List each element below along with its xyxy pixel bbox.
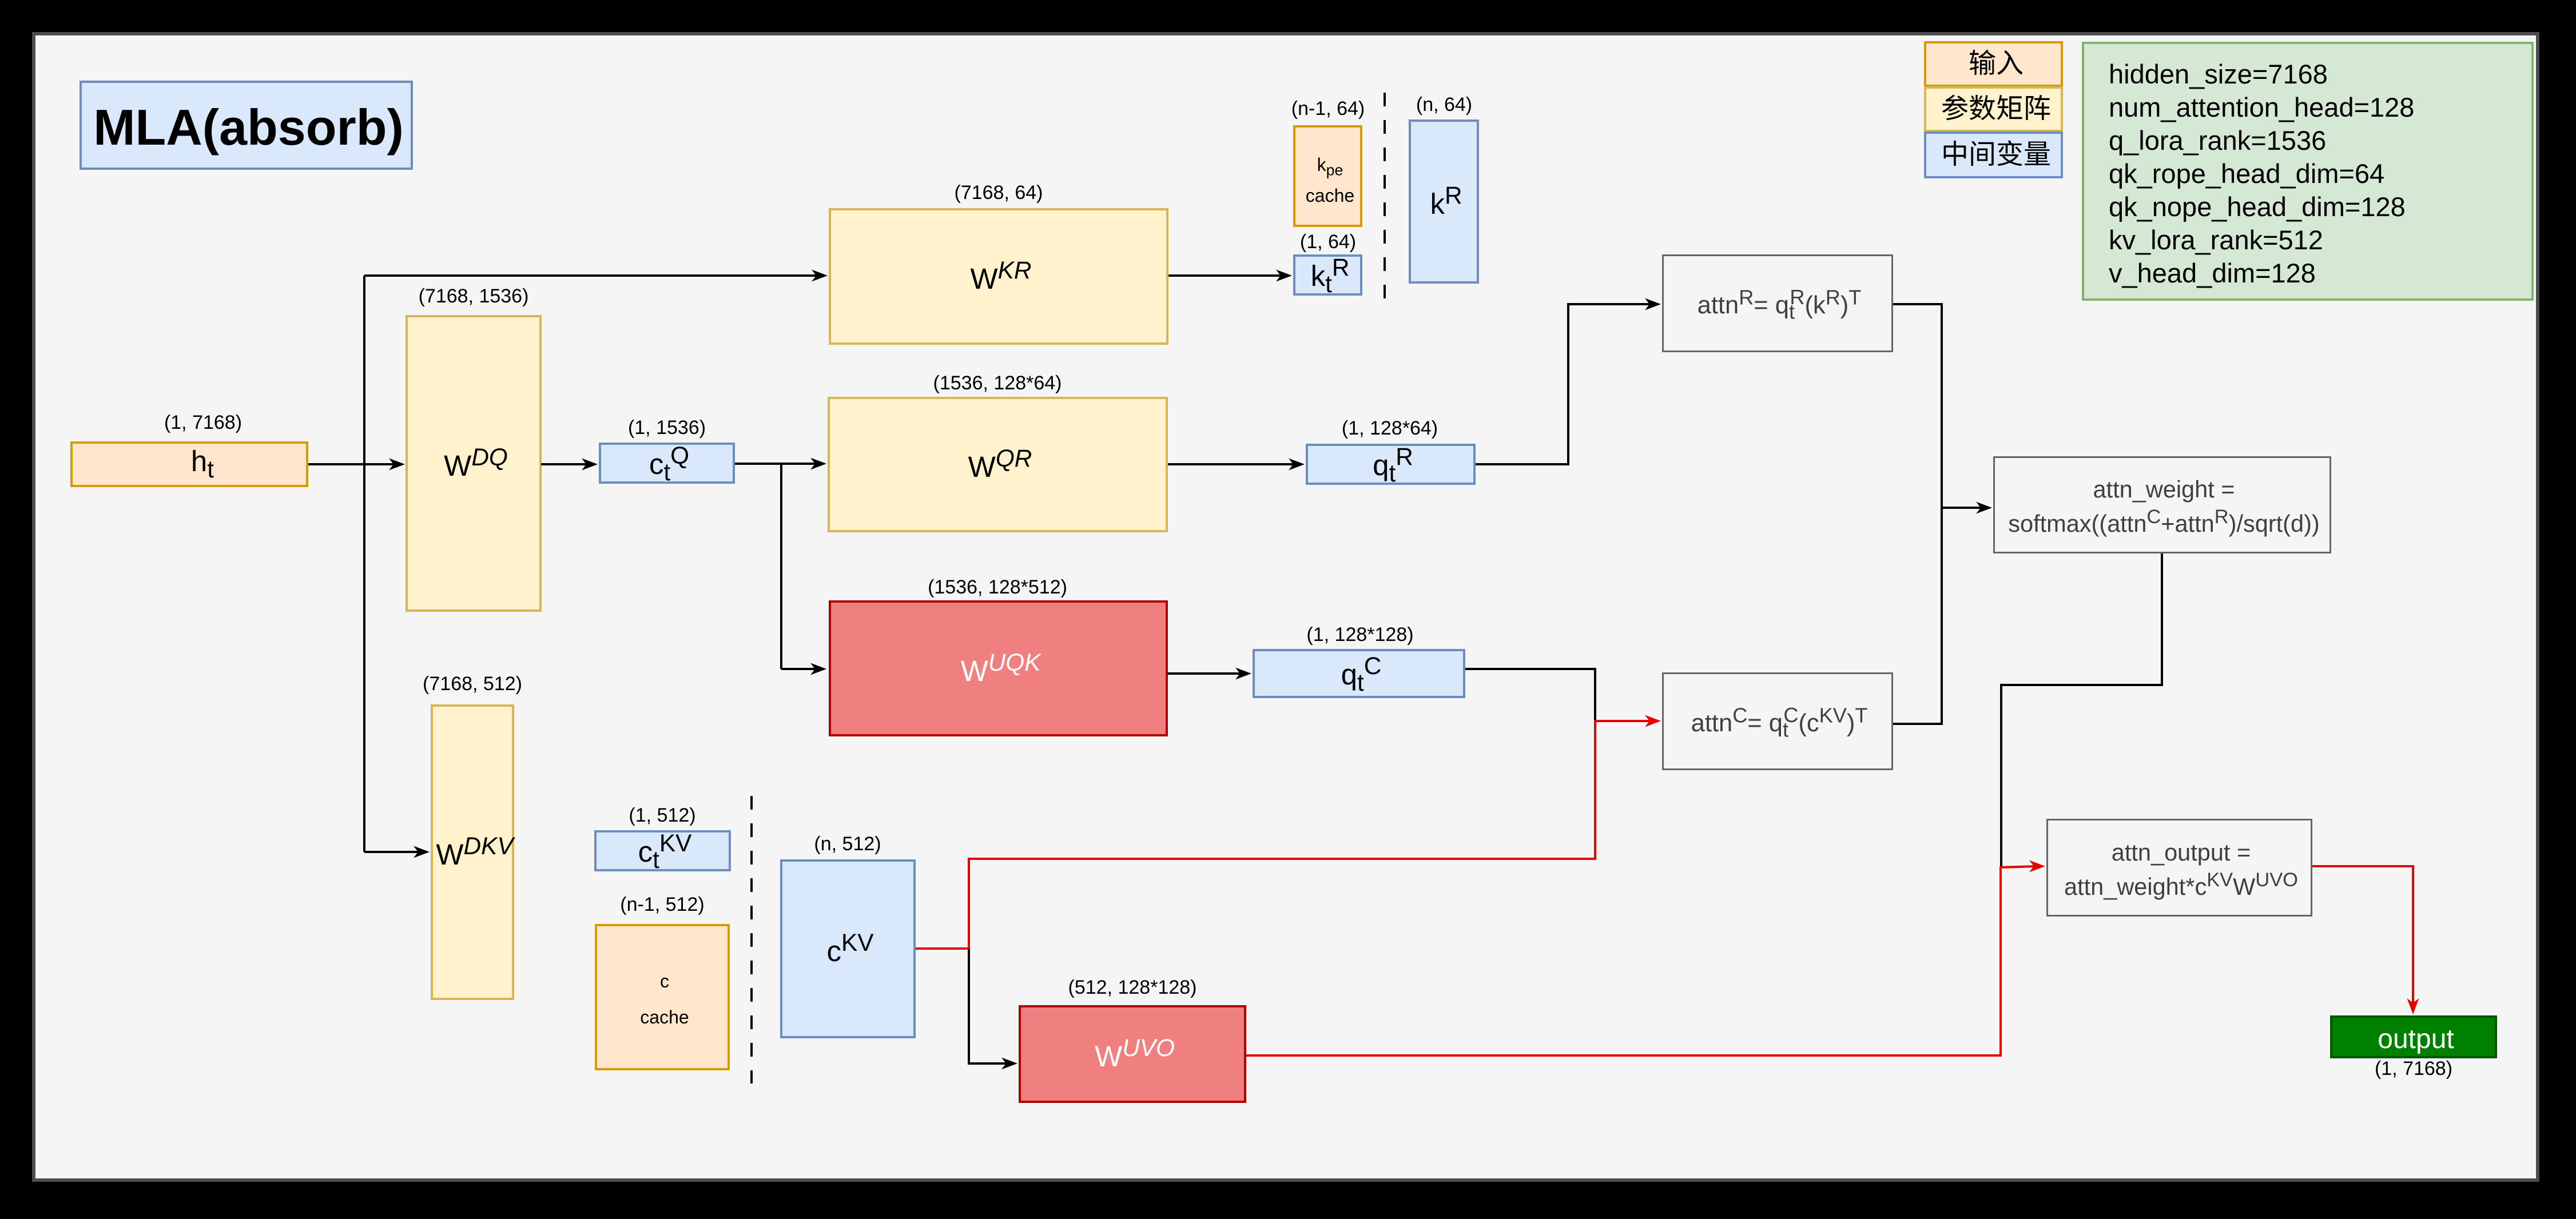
legend input <box>1924 41 2063 87</box>
box W^DKV <box>431 704 514 1000</box>
box c_t^Q <box>599 443 735 484</box>
box W^QR <box>828 397 1168 532</box>
box c cache <box>595 924 730 1070</box>
box c^KV <box>780 859 916 1038</box>
box q_t^C <box>1253 649 1465 698</box>
box q_t^R <box>1306 444 1476 485</box>
label W^DQ dims <box>419 286 529 306</box>
label k_pe cache dims <box>1291 99 1365 118</box>
wire c^KV to W^UVO <box>969 949 1011 1063</box>
wire W^KR to k_t^R <box>1168 274 1285 277</box>
red wire c^KV out <box>916 947 969 950</box>
box W^DQ <box>406 315 542 612</box>
wire c_t^Q to W^QR <box>781 463 820 465</box>
label c^KV dims <box>814 834 881 854</box>
wire c_t^Q to W^UQK <box>781 668 820 670</box>
wire q_t^R to attn^R <box>1476 304 1654 464</box>
box attn^C formula <box>1662 672 1893 770</box>
red wire W^UVO to attn_output <box>1246 866 2038 1055</box>
green info box <box>2082 42 2534 301</box>
wire branch to W^KR <box>364 274 821 277</box>
label output dims <box>2375 1059 2452 1078</box>
legend parameter matrix <box>1924 86 2063 132</box>
legend intermediate variable <box>1924 132 2063 178</box>
box h_t <box>70 441 308 487</box>
label c cache dims <box>620 895 704 914</box>
wire W^UQK to q_t^C <box>1167 672 1245 675</box>
box k^R <box>1409 119 1479 284</box>
wire h_t to W^DQ <box>308 463 398 465</box>
title MLA(absorb) <box>79 81 413 170</box>
label W^UQK dims <box>928 577 1067 597</box>
wire attn_weight down to junction <box>2001 553 2162 867</box>
box W^UVO <box>1019 1005 1246 1103</box>
wire attn^R / attn^C join <box>1893 304 1942 724</box>
label q_t^R dims <box>1342 419 1438 438</box>
label W^UVO dims <box>1068 978 1197 997</box>
label h_t dims <box>164 413 242 432</box>
box attn^R formula <box>1662 254 1893 352</box>
dashed separator c cache <box>750 796 753 1083</box>
wire c_t^Q branch vertical <box>735 464 781 669</box>
label k_t^R dims <box>1300 232 1356 252</box>
box W^UQK <box>829 600 1168 736</box>
label W^KR dims <box>955 183 1043 202</box>
wire W^QR to q_t^R <box>1168 463 1298 465</box>
label W^DKV dims <box>423 674 522 694</box>
box c_t^KV <box>594 830 731 871</box>
wire branch to W^DKV <box>364 851 423 853</box>
wire W^DQ to c_t^Q <box>541 463 591 465</box>
wire q_t^C to junction <box>1465 669 1595 721</box>
box attn_output formula <box>2046 819 2312 917</box>
box k_t^R <box>1293 254 1362 296</box>
box W^KR <box>829 208 1168 345</box>
label W^QR dims <box>933 373 1062 393</box>
wire join to attn_weight <box>1942 507 1985 509</box>
wire branch vertical from h_t <box>363 276 365 852</box>
red wire to attn^C <box>969 721 1654 949</box>
red wire attn_output to output <box>2312 866 2413 1007</box>
label c_t^Q dims <box>628 418 706 437</box>
dashed separator k cache <box>1384 93 1386 310</box>
box attn_weight formula <box>1993 456 2331 553</box>
box k_pe cache <box>1293 125 1362 227</box>
label k^R dims <box>1416 95 1472 114</box>
label q_t^C dims <box>1306 625 1413 644</box>
label c_t^KV dims <box>629 806 695 825</box>
box output <box>2330 1015 2497 1058</box>
